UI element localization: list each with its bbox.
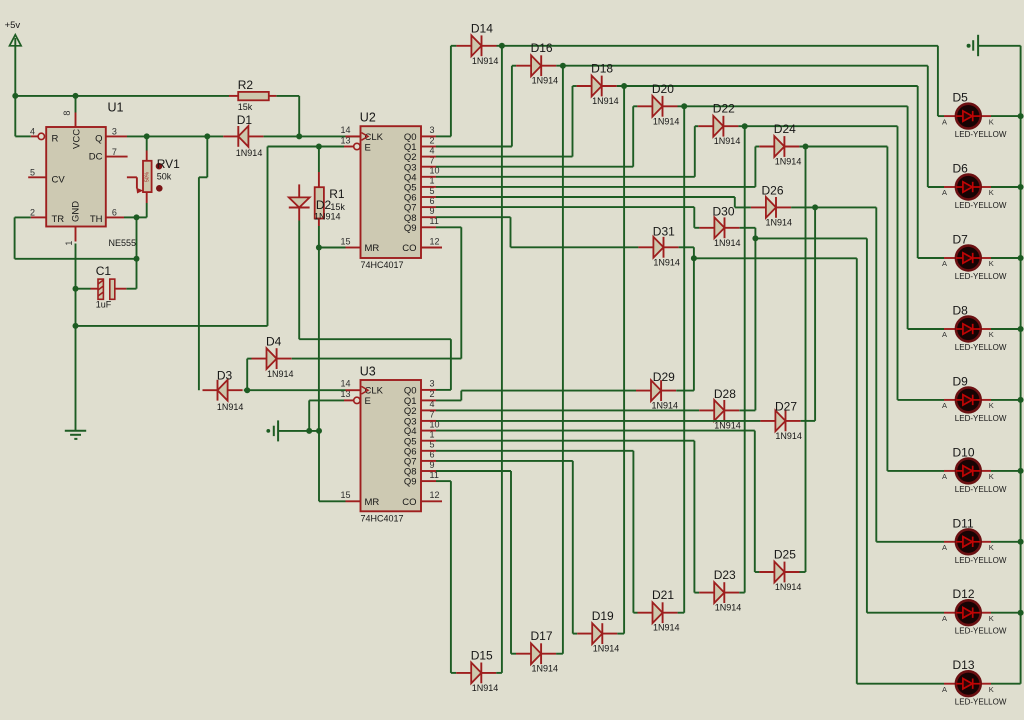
svg-text:Q2: Q2 <box>404 406 417 417</box>
svg-text:D12: D12 <box>953 587 975 601</box>
svg-text:NE555: NE555 <box>109 238 137 248</box>
wire D21 out <box>678 612 685 614</box>
svg-text:K: K <box>989 472 994 481</box>
U1 pin stubs <box>28 113 127 242</box>
wire D4 cathode to U2 Q9 <box>292 227 462 358</box>
svg-text:D15: D15 <box>471 648 493 662</box>
svg-text:CV: CV <box>52 174 66 185</box>
wire U2 D16 feed <box>436 66 516 147</box>
svg-text:D14: D14 <box>471 21 493 35</box>
svg-text:LED-YELLOW: LED-YELLOW <box>955 556 1007 565</box>
wire pin4 to +5V column <box>15 135 30 137</box>
junction D20 out <box>681 103 687 109</box>
wire U2 D18 feed <box>436 86 577 157</box>
svg-text:D16: D16 <box>531 41 553 55</box>
wire D27 out <box>801 420 816 422</box>
wire OR column x=805.5 <box>805 147 807 573</box>
junction +5V/VCC <box>73 93 79 99</box>
svg-text:TH: TH <box>90 214 103 225</box>
svg-text:50%: 50% <box>145 171 151 182</box>
diode D3 <box>203 369 244 412</box>
svg-text:1N914: 1N914 <box>236 148 263 158</box>
diode D2 <box>289 184 341 221</box>
svg-text:R: R <box>52 134 59 145</box>
wire D17 out <box>556 653 563 655</box>
diode D29 <box>636 370 678 411</box>
wire U2 Q8 to D31 <box>436 217 638 247</box>
svg-text:R1: R1 <box>329 187 345 201</box>
wire U2 Q7 to D30 <box>436 207 699 228</box>
diode D30 <box>699 205 740 248</box>
wire U3 D23 feed <box>436 441 699 593</box>
wire D28 out <box>739 409 755 411</box>
svg-text:D20: D20 <box>652 82 674 96</box>
diode D31 <box>638 224 680 267</box>
svg-text:Q: Q <box>95 134 102 145</box>
svg-text:1N914: 1N914 <box>472 683 499 693</box>
svg-text:GND: GND <box>71 201 82 222</box>
U3 MR stub <box>346 500 361 502</box>
wire 555 output node <box>127 135 361 137</box>
junction GND/row <box>73 323 79 329</box>
svg-text:LED-YELLOW: LED-YELLOW <box>955 272 1007 281</box>
svg-text:4: 4 <box>30 127 35 137</box>
wire U2 D14 feed <box>436 46 456 137</box>
wire OR column x=501.9 <box>501 46 503 673</box>
diode D17 <box>516 629 558 674</box>
wire U3 Q2 to D28 <box>436 409 699 411</box>
U2 CLK arrow <box>346 133 369 141</box>
svg-text:K: K <box>989 117 994 126</box>
diode D24 <box>759 122 801 167</box>
LED D5 <box>942 91 1007 140</box>
svg-text:TR: TR <box>52 214 65 225</box>
LED D8 <box>942 304 1007 353</box>
svg-text:14: 14 <box>340 379 350 389</box>
wire U2 Q6 to D26 <box>436 197 751 207</box>
svg-text:CO: CO <box>402 497 416 508</box>
svg-text:D10: D10 <box>953 445 975 459</box>
wire OR column x=624.1 <box>623 86 625 634</box>
svg-text:D23: D23 <box>714 568 736 582</box>
wire D30 out <box>740 228 756 411</box>
svg-text:A: A <box>942 543 947 552</box>
svg-text:D31: D31 <box>653 224 675 238</box>
diode D15 <box>456 648 498 693</box>
svg-text:15: 15 <box>340 490 350 500</box>
LED D13 <box>942 658 1007 707</box>
svg-text:D3: D3 <box>217 369 233 383</box>
svg-text:A: A <box>942 685 947 694</box>
svg-text:1N914: 1N914 <box>775 431 802 441</box>
svg-text:D8: D8 <box>953 304 969 318</box>
svg-text:15k: 15k <box>330 202 345 212</box>
svg-text:15k: 15k <box>238 102 253 112</box>
diode D14 <box>456 21 498 66</box>
svg-text:Q9: Q9 <box>404 223 417 234</box>
svg-text:E: E <box>365 396 371 407</box>
svg-text:MR: MR <box>365 497 380 508</box>
svg-text:1N914: 1N914 <box>766 218 793 228</box>
wire D20 out <box>678 106 945 329</box>
wire D25 out <box>800 571 806 573</box>
svg-text:1N914: 1N914 <box>652 401 679 411</box>
resistor R1 <box>315 147 346 248</box>
svg-text:3: 3 <box>430 125 435 135</box>
junction D18 out <box>621 83 627 89</box>
potentiometer RV1 <box>127 136 180 217</box>
junction dots cathode bus <box>1018 113 1024 616</box>
wire U3 D25 feed <box>436 431 759 572</box>
svg-text:1N914: 1N914 <box>653 623 680 633</box>
svg-text:LED-YELLOW: LED-YELLOW <box>955 627 1007 636</box>
svg-text:A: A <box>942 401 947 410</box>
wire U3 MR rail <box>319 431 346 501</box>
junction +5V/pin4 column <box>12 93 18 99</box>
U2 E bubble <box>344 143 360 149</box>
wire U3 Q3 to D27 <box>436 420 760 422</box>
svg-text:6: 6 <box>112 208 117 218</box>
U3 pin labels <box>340 379 439 508</box>
junction D14 out <box>499 43 505 49</box>
wire Q jog to D3 column <box>199 136 207 390</box>
power +5v supply symbol <box>5 20 22 46</box>
svg-text:+5v: +5v <box>5 20 21 31</box>
U3 E bubble <box>344 397 360 403</box>
wire LED cathodes <box>991 116 1021 684</box>
diode D19 <box>577 609 619 654</box>
junction D3/D4 <box>244 387 250 393</box>
svg-text:U2: U2 <box>360 111 376 125</box>
wire D16 out <box>556 66 944 187</box>
wire U3 D15 feed <box>436 481 456 673</box>
wire D26 out <box>791 207 944 541</box>
svg-text:VCC: VCC <box>72 129 83 149</box>
svg-text:A: A <box>942 472 947 481</box>
svg-text:D6: D6 <box>953 162 969 176</box>
svg-text:D1: D1 <box>237 113 253 127</box>
svg-text:Q0: Q0 <box>404 386 417 397</box>
svg-text:D26: D26 <box>762 184 784 198</box>
junction D31/D29 <box>691 255 697 261</box>
wire D3 out to U3 CLK <box>244 389 346 391</box>
wire D24 out <box>799 147 944 471</box>
wire ground row to U2 E <box>76 147 345 326</box>
wire U3 Q1 to D29 <box>436 391 636 401</box>
svg-text:LED-YELLOW: LED-YELLOW <box>955 130 1007 139</box>
svg-text:K: K <box>989 685 994 694</box>
wire C1 left to GND column <box>76 288 91 290</box>
LED D11 <box>942 516 1007 565</box>
junction Q/jog <box>204 133 210 139</box>
ground symbol top right <box>967 35 979 56</box>
wire U2 D22 feed <box>436 126 698 177</box>
svg-text:LED-YELLOW: LED-YELLOW <box>955 343 1007 352</box>
junction Q/R2/D2 <box>296 133 302 139</box>
op-amp U1 NE555 body <box>46 101 136 248</box>
svg-text:K: K <box>989 401 994 410</box>
svg-text:MR: MR <box>365 243 380 254</box>
svg-text:A: A <box>942 614 947 623</box>
svg-text:1N914: 1N914 <box>714 136 741 146</box>
svg-text:D29: D29 <box>653 370 675 384</box>
svg-text:1N914: 1N914 <box>714 238 741 248</box>
wire D2 bottom to U3 Q0 <box>299 221 451 390</box>
wire D19 out <box>617 633 624 635</box>
junction D26/D27 <box>812 204 818 210</box>
svg-text:U1: U1 <box>108 101 124 115</box>
svg-text:D7: D7 <box>953 233 969 247</box>
junction D16 out <box>560 63 566 69</box>
wire cathode bus <box>978 46 1021 684</box>
svg-text:K: K <box>989 188 994 197</box>
svg-text:74HC4017: 74HC4017 <box>361 260 404 270</box>
svg-text:1N914: 1N914 <box>267 369 294 379</box>
svg-text:1: 1 <box>64 241 74 246</box>
svg-text:K: K <box>989 330 994 339</box>
svg-text:1N914: 1N914 <box>314 212 341 222</box>
U1 pin 4 bubble <box>31 133 45 139</box>
svg-text:A: A <box>942 330 947 339</box>
wire U3 E to ground <box>278 400 344 431</box>
svg-text:1N914: 1N914 <box>653 257 680 267</box>
svg-text:U3: U3 <box>360 365 376 379</box>
svg-text:D18: D18 <box>591 62 613 76</box>
svg-text:3: 3 <box>112 127 117 137</box>
junction E3/gnd <box>306 428 312 434</box>
U3 CO stub <box>421 500 442 502</box>
svg-text:3: 3 <box>430 379 435 389</box>
svg-text:14: 14 <box>340 125 350 135</box>
wire D18 out <box>617 86 944 258</box>
wire D4 anode drop <box>247 359 251 391</box>
wire D29 out <box>676 390 694 392</box>
svg-text:A: A <box>942 117 947 126</box>
svg-text:D27: D27 <box>775 400 797 414</box>
svg-text:1N914: 1N914 <box>775 157 802 167</box>
U3 CLK arrow <box>346 386 369 394</box>
LED D10 <box>942 445 1007 494</box>
svg-text:12: 12 <box>430 490 440 500</box>
junction MR3/gnd <box>316 428 322 434</box>
wire D22 out <box>738 126 944 400</box>
diode D18 <box>577 62 619 107</box>
svg-text:LED-YELLOW: LED-YELLOW <box>955 414 1007 423</box>
svg-text:LED-YELLOW: LED-YELLOW <box>955 201 1007 210</box>
svg-text:D5: D5 <box>953 91 969 105</box>
svg-text:12: 12 <box>430 236 440 246</box>
svg-text:LED-YELLOW: LED-YELLOW <box>955 485 1007 494</box>
LED D12 <box>942 587 1007 636</box>
svg-text:D13: D13 <box>953 658 975 672</box>
wire D30 net to LED D12 <box>755 238 944 612</box>
svg-text:2: 2 <box>30 208 35 218</box>
wire D15 out <box>496 672 502 674</box>
U3 output pin stubs <box>421 390 436 481</box>
junction TH/RV1 <box>134 214 140 220</box>
diode D16 <box>516 41 558 85</box>
svg-text:E: E <box>365 142 371 153</box>
svg-text:D2: D2 <box>316 198 332 212</box>
svg-text:1uF: 1uF <box>96 300 112 310</box>
svg-text:1N914: 1N914 <box>653 116 680 126</box>
wire OR column x=744.7 <box>744 126 746 592</box>
junction Q/RV1 <box>144 133 150 139</box>
wire R1 to U3 ground rail <box>319 248 346 431</box>
svg-text:D28: D28 <box>714 387 736 401</box>
U2 pin labels <box>340 125 439 254</box>
svg-text:Q9: Q9 <box>404 477 417 488</box>
svg-text:K: K <box>989 614 994 623</box>
svg-text:D19: D19 <box>592 609 614 623</box>
U2 CO stub <box>421 247 442 249</box>
diode D4 <box>252 335 294 380</box>
svg-text:D4: D4 <box>266 335 282 349</box>
svg-text:1N914: 1N914 <box>715 603 742 613</box>
svg-text:5: 5 <box>30 167 35 177</box>
U2 output pin stubs <box>421 136 436 227</box>
svg-text:A: A <box>942 188 947 197</box>
svg-text:1N914: 1N914 <box>593 644 620 654</box>
LED D7 <box>942 233 1007 282</box>
wire U3 D21 feed <box>436 451 638 613</box>
svg-text:1N914: 1N914 <box>592 96 619 106</box>
svg-text:K: K <box>989 259 994 268</box>
wire GND column <box>75 244 77 431</box>
svg-text:D22: D22 <box>713 102 735 116</box>
svg-text:15: 15 <box>340 236 350 246</box>
junction E/R1 <box>316 144 322 150</box>
svg-text:D11: D11 <box>953 516 974 530</box>
wire TH net <box>124 217 137 288</box>
wire OR column x=684.2 <box>683 106 685 612</box>
diode D25 <box>759 548 801 593</box>
diode D28 <box>699 387 741 431</box>
svg-text:1N914: 1N914 <box>532 664 559 674</box>
diode D20 <box>637 82 679 127</box>
svg-text:A: A <box>942 259 947 268</box>
wire U3 D19 feed <box>436 461 577 634</box>
diode D26 <box>751 184 792 228</box>
svg-text:D24: D24 <box>774 122 796 136</box>
svg-text:74HC4017: 74HC4017 <box>361 514 404 524</box>
svg-text:1N914: 1N914 <box>714 420 741 430</box>
wire D31 out <box>679 247 694 390</box>
svg-text:LED-YELLOW: LED-YELLOW <box>955 698 1007 707</box>
resistor R2 <box>229 78 276 112</box>
svg-text:CO: CO <box>402 243 416 254</box>
wire +5V rail <box>15 46 299 137</box>
svg-text:D30: D30 <box>713 205 735 219</box>
junction GND/C1 <box>73 286 79 292</box>
wire D31 net to LED D13 <box>694 258 944 683</box>
capacitor C1 <box>91 264 127 310</box>
svg-text:R2: R2 <box>238 78 254 92</box>
diode D23 <box>699 568 741 613</box>
svg-text:1N914: 1N914 <box>472 56 499 66</box>
counter U3 74HC4017 body <box>360 365 421 524</box>
svg-text:D21: D21 <box>652 588 674 602</box>
svg-text:1N914: 1N914 <box>217 402 244 412</box>
junction MR U2/R1 <box>316 245 322 251</box>
U1 pin names <box>52 129 103 225</box>
wire U3 D17 feed <box>436 471 516 654</box>
U1 pin numbers <box>30 111 117 246</box>
wire OR column x=562.9 <box>562 66 564 654</box>
svg-text:RV1: RV1 <box>157 157 180 171</box>
junction D24 out <box>803 144 809 150</box>
junction TH/TR <box>134 256 140 262</box>
wire U2 D20 feed <box>436 106 637 166</box>
ground symbol U3 <box>266 420 278 441</box>
diode D21 <box>638 588 680 633</box>
svg-text:8: 8 <box>62 111 72 116</box>
wire TR loop <box>15 217 137 258</box>
junction D22 out <box>742 123 748 129</box>
ground symbol main <box>65 431 86 439</box>
diode D27 <box>760 400 802 441</box>
diode D1 <box>223 113 263 158</box>
wire U2 D24 feed <box>436 147 759 187</box>
svg-text:1N914: 1N914 <box>532 76 559 86</box>
svg-text:1N914: 1N914 <box>775 582 802 592</box>
diode D22 <box>698 102 740 147</box>
counter U2 74HC4017 body <box>360 111 421 271</box>
wire D26-D27 column <box>814 207 816 421</box>
wire D14 out <box>497 46 945 116</box>
svg-text:DC: DC <box>89 151 103 162</box>
LED D6 <box>942 162 1007 211</box>
U2 MR stub <box>346 247 361 249</box>
junction D30/D28 <box>752 235 758 241</box>
svg-text:50k: 50k <box>157 172 172 182</box>
wire D23 out <box>739 592 744 594</box>
svg-text:D17: D17 <box>531 629 553 643</box>
svg-text:D9: D9 <box>953 374 969 388</box>
LED D9 <box>942 374 1007 423</box>
svg-text:K: K <box>989 543 994 552</box>
svg-text:C1: C1 <box>96 264 112 278</box>
svg-text:D25: D25 <box>774 548 796 562</box>
